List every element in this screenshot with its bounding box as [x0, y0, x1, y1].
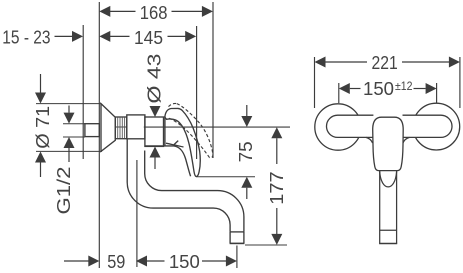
- front view body bar: [327, 115, 453, 137]
- outlet sides and bottom: [230, 232, 244, 244]
- svg-text:150: 150: [169, 251, 200, 272]
- svg-text:75: 75: [235, 141, 256, 162]
- nipple G1/2: [85, 124, 99, 137]
- svg-text:59: 59: [107, 251, 125, 272]
- pre-wall line (min wall): [82, 25, 84, 159]
- svg-text:15 - 23: 15 - 23: [2, 26, 50, 47]
- lever dashed open position: [169, 103, 213, 157]
- dimension 177 column: [271, 127, 282, 138]
- centerline side view: [115, 126, 127, 128]
- svg-text:177: 177: [266, 171, 287, 204]
- svg-text:168: 168: [140, 2, 168, 23]
- svg-text:±12: ±12: [395, 79, 413, 93]
- outlet axis extension line: [236, 246, 238, 269]
- body bottom edge to lever tip: [145, 146, 191, 176]
- front view fillet right: [403, 137, 410, 143]
- dimension 15-23 arrow: [55, 35, 73, 37]
- escutcheon cone: [101, 104, 115, 152]
- valve body D43: [145, 117, 164, 146]
- aerator line: [230, 231, 244, 233]
- svg-text:145: 145: [134, 27, 163, 48]
- front view handle: [373, 114, 402, 139]
- dimension D71: [40, 74, 42, 93]
- svg-text:Ø 71: Ø 71: [32, 106, 53, 149]
- body right edge: [164, 116, 166, 145]
- front dimension 221: [314, 57, 316, 108]
- svg-text:150: 150: [363, 78, 394, 99]
- dimension 75 column: [246, 105, 248, 116]
- dimension 145: [110, 35, 186, 37]
- front view left escutcheon circle: [315, 104, 361, 150]
- tick nipple top: [63, 123, 85, 125]
- front view fillet left: [366, 137, 373, 143]
- spout axis extension line: [136, 160, 138, 267]
- tick 75 bottom (lever tip level): [196, 176, 255, 178]
- extension line 168 right: [212, 2, 214, 158]
- tick D71 bottom: [36, 150, 102, 152]
- front dimension 150+-12: [338, 83, 340, 103]
- dimension 150 row: [136, 256, 147, 267]
- dimension 59 row: [64, 260, 89, 262]
- front view right escutcheon circle: [413, 103, 460, 150]
- lever handle solid: [165, 108, 200, 176]
- extension line 145 right: [196, 26, 198, 159]
- dimension G1/2: [68, 106, 70, 113]
- tick D71 top: [36, 103, 101, 105]
- tick 177 bottom: [245, 244, 287, 246]
- knurl lines: [118, 117, 125, 138]
- tick nipple bottom: [63, 136, 85, 138]
- lever skirt detail: [166, 143, 184, 147]
- front view shank tube: [379, 166, 397, 244]
- svg-text:Ø 43: Ø 43: [143, 54, 164, 104]
- wall line: [98, 2, 100, 268]
- spacer ring: [127, 115, 145, 139]
- svg-text:221: 221: [372, 52, 398, 73]
- spout bend front detail: [380, 172, 397, 187]
- spout outer outline: [127, 139, 230, 232]
- svg-text:G1/2: G1/2: [53, 167, 74, 215]
- knurled nut: [115, 117, 127, 139]
- dimension 168: [110, 10, 203, 12]
- dimension D43 arrows: [150, 106, 161, 117]
- spout inner outline: [145, 151, 244, 232]
